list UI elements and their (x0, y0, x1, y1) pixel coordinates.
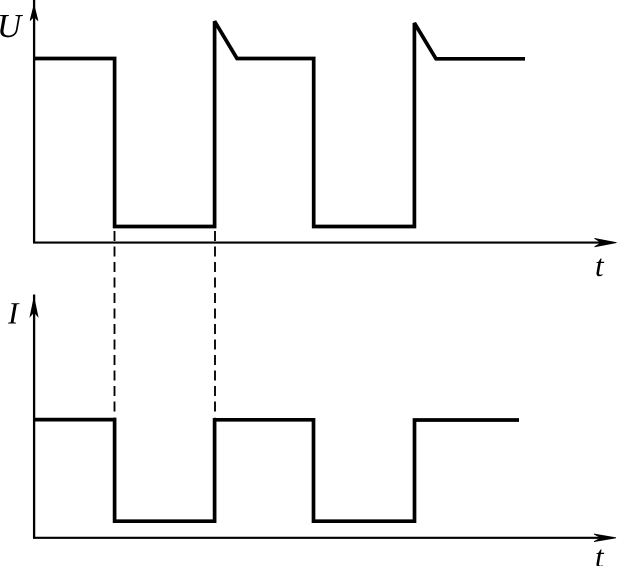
U-plot vertical axis (33, 0, 35, 243)
label t (lower axis) (596, 550, 604, 566)
I-plot t-axis arrowhead (594, 534, 616, 542)
label U (0, 15, 23, 37)
dashed alignment line 2 (214, 231, 216, 417)
I-plot vertical axis (33, 295, 35, 538)
U-plot vertical axis arrowhead (30, 5, 38, 21)
label t (upper axis) (596, 259, 604, 277)
I-plot vertical axis arrowhead (30, 298, 38, 317)
dashed alignment line 1 (114, 231, 116, 417)
U waveform (34, 21, 525, 226)
label I (8, 303, 20, 323)
U-plot t-axis arrowhead (595, 238, 617, 246)
I-plot horizontal t-axis (33, 537, 609, 539)
I waveform (34, 420, 519, 522)
U-plot horizontal t-axis (33, 242, 610, 244)
